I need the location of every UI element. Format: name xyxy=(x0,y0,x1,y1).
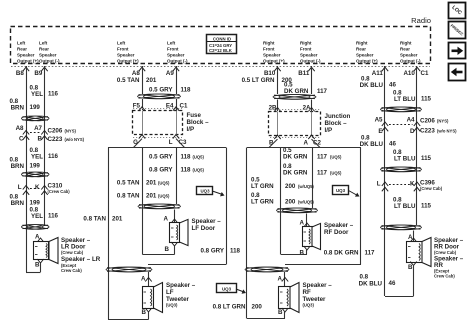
wire: 0.8 DK GRN 117 branch (RF right edge) xyxy=(360,148,362,265)
svg-text:DK GRN: DK GRN xyxy=(283,170,308,177)
wire: 0.5 TAN 201 from radio A8 xyxy=(142,66,144,94)
svg-text:A8: A8 xyxy=(16,125,24,132)
svg-text:Rear: Rear xyxy=(17,47,27,52)
svg-text:46: 46 xyxy=(389,82,396,89)
wire: 0.8 BRN 199 from radio B8 (left vertical) xyxy=(26,66,28,272)
svg-text:(w/UQ5): (w/UQ5) xyxy=(298,184,314,189)
svg-text:YEL: YEL xyxy=(31,154,43,161)
svg-text:BRN: BRN xyxy=(11,163,25,170)
wire to RR speaker pin A xyxy=(413,231,415,242)
svg-text:Front: Front xyxy=(263,47,275,52)
radio pin A9 xyxy=(173,67,179,71)
svg-text:(NYS): (NYS) xyxy=(65,129,77,134)
svg-text:DK GRN: DK GRN xyxy=(284,88,309,95)
svg-text:Speaker: Speaker xyxy=(400,53,418,58)
svg-text:0.8 LT GRN: 0.8 LT GRN xyxy=(213,304,246,311)
svg-text:A5: A5 xyxy=(375,117,383,124)
inline connector C396 (Crew Cab) pins L/K xyxy=(382,182,388,186)
svg-text:(w/o NYS): (w/o NYS) xyxy=(65,137,85,142)
svg-text:B: B xyxy=(35,262,40,269)
twisted pair LR (lower) xyxy=(22,225,44,230)
svg-text:0.5 GRY: 0.5 GRY xyxy=(149,87,173,94)
svg-text:0.8 GRY: 0.8 GRY xyxy=(201,248,225,255)
svg-text:Right: Right xyxy=(263,40,275,45)
svg-text:UQ3: UQ3 xyxy=(200,189,210,194)
svg-text:(UQ5): (UQ5) xyxy=(330,171,342,176)
twisted pair RR (upper) xyxy=(381,107,416,112)
svg-text:B: B xyxy=(38,136,43,143)
svg-text:0.5 TAN: 0.5 TAN xyxy=(117,77,140,84)
wire: 0.5 TAN 201 (LF inner left) xyxy=(142,148,144,205)
svg-text:DK BLU: DK BLU xyxy=(359,281,383,288)
svg-text:I/P: I/P xyxy=(187,126,195,133)
twisted pair RF (above junction block) xyxy=(273,95,310,100)
wire: 0.5 DK GRN 117 from radio B11 xyxy=(311,66,313,94)
svg-text:200: 200 xyxy=(285,199,296,206)
svg-text:Speaker –: Speaker – xyxy=(303,282,333,289)
wire: 0.5 GRY 118 (LF inner right) xyxy=(176,148,178,205)
twisted pair RR (middle) xyxy=(381,167,416,172)
svg-text:A: A xyxy=(164,216,169,223)
wire: 0.8 GRY 118 branch (LF right edge) xyxy=(226,148,228,265)
svg-text:(UQ5): (UQ5) xyxy=(158,181,170,186)
svg-text:LF Door: LF Door xyxy=(192,225,216,232)
svg-text:A: A xyxy=(300,220,305,227)
svg-text:B: B xyxy=(142,309,147,316)
svg-text:0.8 DK GRN: 0.8 DK GRN xyxy=(324,250,359,257)
svg-text:UQ3: UQ3 xyxy=(336,188,346,193)
svg-text:DK BLU: DK BLU xyxy=(360,82,384,89)
svg-text:I/P: I/P xyxy=(325,127,333,134)
nav button: PRI/SEC (diagonal label) xyxy=(449,22,466,39)
svg-text:117: 117 xyxy=(317,154,328,161)
radio pin A8 xyxy=(139,67,145,71)
svg-text:Output (+): Output (+) xyxy=(356,59,378,64)
svg-text:E: E xyxy=(378,128,382,135)
speaker LF Tweeter (box with coil and cone) xyxy=(143,287,154,309)
svg-text:L: L xyxy=(377,181,381,188)
svg-text:BRN: BRN xyxy=(11,200,25,207)
svg-text:116: 116 xyxy=(48,153,59,160)
svg-text:(UQ5): (UQ5) xyxy=(330,155,342,160)
wire to RF tweeter pin A xyxy=(284,272,286,287)
svg-text:Speaker: Speaker xyxy=(17,53,35,58)
twisted pair LR (middle) xyxy=(22,172,44,177)
speaker LR (box with coil and cone) xyxy=(34,242,49,260)
svg-text:(w/UQ5): (w/UQ5) xyxy=(298,200,314,205)
wire: 0.5 GRY 118 from radio A9 xyxy=(176,66,178,94)
svg-text:(Crew Cab): (Crew Cab) xyxy=(48,189,71,194)
wire flare splits below fuse block xyxy=(134,139,143,148)
svg-text:L: L xyxy=(169,139,173,146)
radio pin B9 xyxy=(41,67,47,71)
svg-text:(UQ5): (UQ5) xyxy=(158,194,170,199)
svg-text:Right: Right xyxy=(356,40,368,45)
svg-text:YEL: YEL xyxy=(31,213,43,220)
svg-text:B: B xyxy=(278,309,283,316)
wire: 0.5 LT GRN 200 (RF inner left) xyxy=(280,148,282,209)
wire to LF tweeter pin A xyxy=(148,272,150,287)
wire: 0.8 LT GRN 200 branch (RF left edge) xyxy=(246,148,248,319)
svg-text:C206: C206 xyxy=(48,128,63,135)
svg-text:Rear: Rear xyxy=(356,47,366,52)
svg-text:C2=12 BLK: C2=12 BLK xyxy=(209,48,233,53)
junction block bottom pins B / A / C2 xyxy=(274,135,280,139)
svg-text:117: 117 xyxy=(317,88,328,95)
wire: 0.8 DK BLU 46 from radio A11 xyxy=(384,66,386,296)
svg-text:Front: Front xyxy=(167,47,179,52)
svg-text:C223: C223 xyxy=(420,128,435,135)
radio pin A11 xyxy=(382,67,388,71)
wire: 0.8 TAN 201 branch (LF left edge) xyxy=(108,148,110,320)
svg-text:(Crew Cab): (Crew Cab) xyxy=(434,250,457,255)
wire: RR speaker B return loop xyxy=(413,266,415,296)
wire to RF door speaker pin A xyxy=(306,214,308,228)
svg-text:BRN: BRN xyxy=(11,105,25,112)
svg-text:A: A xyxy=(304,140,309,147)
svg-text:Output (-): Output (-) xyxy=(167,59,188,64)
svg-text:118: 118 xyxy=(181,154,192,161)
nav button: right arrow xyxy=(449,43,466,59)
svg-text:Fuse: Fuse xyxy=(187,112,202,119)
svg-text:199: 199 xyxy=(30,104,41,111)
twisted pair LR (upper) xyxy=(22,116,44,121)
svg-text:Output (-): Output (-) xyxy=(39,59,60,64)
svg-text:0.8: 0.8 xyxy=(360,274,369,281)
wire: 0.8 YEL 116 from radio B9 xyxy=(44,66,46,226)
UQ3 callout (points at LF right edge wire) xyxy=(197,187,213,195)
svg-text:118: 118 xyxy=(181,167,192,174)
speaker RR (box with coil and cone) xyxy=(407,242,423,263)
svg-text:B: B xyxy=(165,246,170,253)
svg-text:RF Door: RF Door xyxy=(324,229,349,236)
svg-text:Left: Left xyxy=(39,40,48,45)
svg-text:Junction: Junction xyxy=(325,113,351,120)
LF bus (horizontal junction) xyxy=(108,147,226,149)
wire: LR speaker B return loop xyxy=(40,263,42,272)
junction block - I/P (dashed box) xyxy=(269,112,321,136)
svg-text:L: L xyxy=(18,184,22,191)
speaker RF Tweeter (box with coil and cone) xyxy=(279,287,291,309)
svg-text:DK BLU: DK BLU xyxy=(360,141,384,148)
svg-text:UQ3: UQ3 xyxy=(222,287,232,292)
radio pin B8 xyxy=(23,67,29,71)
svg-text:Right: Right xyxy=(400,40,412,45)
svg-text:Output (-): Output (-) xyxy=(300,59,321,64)
wire to LF door speaker pin A xyxy=(174,210,176,224)
svg-text:Speaker: Speaker xyxy=(356,53,374,58)
svg-text:Speaker –: Speaker – xyxy=(166,282,196,289)
svg-text:B9: B9 xyxy=(34,70,42,77)
svg-text:Block –: Block – xyxy=(325,120,348,127)
svg-text:0.5 GRY: 0.5 GRY xyxy=(149,154,173,161)
svg-text:CONN ID: CONN ID xyxy=(213,36,231,41)
wire: RF pair link to right edge xyxy=(285,264,361,266)
svg-text:Front: Front xyxy=(300,47,312,52)
svg-text:Rear: Rear xyxy=(400,47,410,52)
UQ3 callout (points at RF right edge wire) xyxy=(333,186,349,195)
svg-text:(NYS): (NYS) xyxy=(437,119,449,124)
svg-text:Speaker: Speaker xyxy=(263,53,281,58)
radio U1 (dashed outline box) xyxy=(11,27,431,64)
svg-text:117: 117 xyxy=(365,250,376,257)
svg-text:YEL: YEL xyxy=(31,91,43,98)
conn id table (C1=24 GRY / C2=12 BLK) xyxy=(207,35,237,54)
svg-text:Speaker: Speaker xyxy=(117,53,135,58)
svg-text:Left: Left xyxy=(167,40,176,45)
wire: RF tweeter B return to bottom loop xyxy=(284,312,286,319)
wire: 0.8 LT BLU 115 from radio A10 xyxy=(416,66,418,225)
svg-text:Speaker –: Speaker – xyxy=(324,222,354,229)
svg-text:0.8 TAN: 0.8 TAN xyxy=(117,193,140,200)
wire flare splits below junction block xyxy=(269,139,278,147)
svg-text:(UQ5): (UQ5) xyxy=(193,155,205,160)
wire: LF pair link to right edge xyxy=(148,264,226,266)
svg-text:Output (-): Output (-) xyxy=(400,59,421,64)
svg-text:C206: C206 xyxy=(420,118,435,125)
svg-text:Rear: Rear xyxy=(39,47,49,52)
twisted pair LF tweeter (horizontal) xyxy=(106,267,146,272)
svg-text:C: C xyxy=(19,136,24,143)
inline connector C310 (Crew Cab) pins L/K xyxy=(23,186,29,190)
svg-text:Block –: Block – xyxy=(187,119,210,126)
twisted pair RF tweeter (horizontal) xyxy=(245,267,283,272)
RF bus (horizontal junction) xyxy=(247,147,361,149)
radio pin A10 xyxy=(414,67,420,71)
svg-text:116: 116 xyxy=(48,91,59,98)
svg-text:201: 201 xyxy=(146,180,157,187)
svg-text:201: 201 xyxy=(146,77,157,84)
svg-text:Speaker: Speaker xyxy=(300,53,318,58)
svg-text:(Crew Cab): (Crew Cab) xyxy=(420,186,443,191)
wire: RF door speaker B return xyxy=(306,250,308,255)
wire stubs into junction block xyxy=(277,100,279,112)
svg-text:Speaker: Speaker xyxy=(39,53,57,58)
twisted pair LF (above fuse block) xyxy=(138,94,175,99)
UQ3 callout (points at RF left edge wire) xyxy=(217,284,237,293)
nav button: LOC (diagonal label) xyxy=(449,3,466,19)
svg-text:Crew Cab): Crew Cab) xyxy=(434,274,455,279)
svg-text:C223: C223 xyxy=(48,136,63,143)
svg-text:200: 200 xyxy=(252,304,263,311)
svg-text:115: 115 xyxy=(421,96,432,103)
svg-text:LT BLU: LT BLU xyxy=(394,96,416,103)
wire: LF door speaker B return xyxy=(174,246,176,255)
svg-text:0.5 LT GRN: 0.5 LT GRN xyxy=(242,77,275,84)
svg-text:A4: A4 xyxy=(407,117,415,124)
wire: 0.5 LT GRN 200 from radio B10 xyxy=(277,66,279,94)
svg-text:(UQ3): (UQ3) xyxy=(166,303,178,308)
wire: LF tweeter B return to bottom loop xyxy=(148,312,150,320)
twisted pair RR (lower) xyxy=(381,225,416,230)
svg-text:A7: A7 xyxy=(34,125,42,132)
svg-text:A10: A10 xyxy=(403,70,415,77)
speaker RF Door (box with coil and cone) xyxy=(303,227,313,247)
svg-text:Output (+): Output (+) xyxy=(263,59,285,64)
svg-text:LT GRN: LT GRN xyxy=(251,183,274,190)
radio pin B10 xyxy=(274,67,280,71)
svg-text:A11: A11 xyxy=(372,70,384,77)
svg-text:46: 46 xyxy=(389,280,396,287)
svg-text:LT GRN: LT GRN xyxy=(251,199,274,206)
inline connector C206/C223 (RR pins A5/A4, E/D) xyxy=(382,122,388,126)
svg-text:118: 118 xyxy=(181,87,192,94)
svg-text:(w/o NYS): (w/o NYS) xyxy=(437,129,457,134)
svg-text:C1: C1 xyxy=(421,70,429,77)
svg-text:DK GRN: DK GRN xyxy=(283,154,308,161)
svg-text:B: B xyxy=(300,250,305,257)
svg-text:46: 46 xyxy=(389,141,396,148)
svg-text:0.5 TAN: 0.5 TAN xyxy=(117,180,140,187)
svg-text:LT BLU: LT BLU xyxy=(394,203,416,210)
svg-text:A9: A9 xyxy=(166,70,174,77)
svg-text:(Crew Cab): (Crew Cab) xyxy=(61,250,84,255)
svg-text:199: 199 xyxy=(30,200,41,207)
svg-text:118: 118 xyxy=(230,248,241,255)
svg-text:0.8 TAN: 0.8 TAN xyxy=(83,216,106,223)
svg-text:Left: Left xyxy=(17,40,26,45)
svg-text:RF: RF xyxy=(303,289,311,296)
svg-text:Radio: Radio xyxy=(411,16,431,25)
svg-text:Speaker –: Speaker – xyxy=(192,218,222,225)
svg-text:199: 199 xyxy=(30,163,41,170)
svg-text:B: B xyxy=(408,264,413,271)
svg-text:(UQ5): (UQ5) xyxy=(193,168,205,173)
svg-text:Left: Left xyxy=(117,40,126,45)
svg-text:200: 200 xyxy=(285,183,296,190)
speaker LF Door (box with coil and cone) xyxy=(170,223,180,243)
svg-text:116: 116 xyxy=(48,213,59,220)
fuse block - I/P (dashed box) xyxy=(133,111,183,135)
twisted pair RF (to door speaker) xyxy=(277,208,312,213)
svg-text:B8: B8 xyxy=(16,70,24,77)
wire stubs into fuse block xyxy=(142,99,144,110)
svg-text:0.8 GRY: 0.8 GRY xyxy=(149,167,173,174)
svg-text:Output (+): Output (+) xyxy=(117,59,139,64)
wire: 0.5 DK GRN 117 (RF inner right) xyxy=(312,148,314,209)
svg-text:117: 117 xyxy=(317,170,328,177)
svg-text:LF: LF xyxy=(166,289,174,296)
twisted pair LF (to door speaker) xyxy=(138,204,175,209)
svg-text:Output (+): Output (+) xyxy=(17,59,39,64)
svg-text:Speaker: Speaker xyxy=(167,53,185,58)
svg-text:LT BLU: LT BLU xyxy=(394,156,416,163)
svg-text:C1: C1 xyxy=(180,103,188,110)
inline connector C206/C223 (LR pins A8/A7, C/B) xyxy=(23,131,29,135)
svg-text:Crew Cab): Crew Cab) xyxy=(61,268,82,273)
svg-text:201: 201 xyxy=(146,193,157,200)
radio connector C1 dotted boundary line xyxy=(11,66,430,68)
svg-text:(UQ3): (UQ3) xyxy=(303,303,315,308)
svg-text:D: D xyxy=(410,128,415,135)
svg-text:115: 115 xyxy=(421,155,432,162)
fuse block bottom pins G / L / C3 xyxy=(139,135,145,139)
radio pin B11 xyxy=(308,67,314,71)
svg-text:Right: Right xyxy=(300,40,312,45)
svg-text:115: 115 xyxy=(421,203,432,210)
nav button: left arrow xyxy=(449,64,466,81)
svg-text:K: K xyxy=(35,184,40,191)
svg-text:201: 201 xyxy=(112,216,123,223)
svg-text:Front: Front xyxy=(117,47,129,52)
svg-text:K: K xyxy=(410,181,415,188)
svg-text:B11: B11 xyxy=(298,70,310,77)
